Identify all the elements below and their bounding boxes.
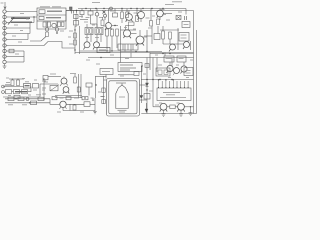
- wire terminal column bus: [4, 13, 6, 61]
- wire J5: [9, 33, 31, 35]
- vertical bb: [49, 99, 51, 105]
- resistor R31: [102, 100, 106, 104]
- label Q5: [161, 9, 165, 11]
- wire bl mid: [3, 86, 24, 88]
- resistor R28: [38, 97, 44, 100]
- wire tm3: [96, 20, 98, 28]
- transistor Q16: [174, 68, 180, 74]
- wire top bus lower: [66, 10, 194, 12]
- wire q rail b: [130, 44, 132, 52]
- resistor R7: [150, 21, 153, 27]
- diode D1: [103, 11, 106, 14]
- label bar bl: [15, 91, 27, 93]
- wire J10: [9, 61, 25, 63]
- coil L1: [39, 10, 45, 14]
- resistor R29: [84, 102, 90, 107]
- vertical drop U2: [105, 75, 107, 79]
- transistor Q7: [94, 42, 100, 48]
- vertical rcr b: [152, 58, 154, 102]
- vertical q15: [94, 98, 96, 111]
- transistor Q11: [184, 42, 190, 48]
- resistor R32: [170, 105, 175, 109]
- label Q9: [143, 36, 147, 38]
- node rail dots: [74, 29, 75, 30]
- wire J6: [9, 39, 29, 41]
- wire q15 right2: [90, 103, 95, 105]
- antenna arrow: [4, 2, 6, 9]
- transistor Q4: [138, 12, 145, 19]
- wire tm2: [112, 25, 118, 27]
- ground G4: [179, 110, 183, 116]
- wire T2 top: [86, 24, 88, 28]
- capacitor C3: [80, 11, 84, 15]
- label crt in2: [119, 111, 125, 113]
- wire drop d: [171, 58, 173, 66]
- transistor Q13: [181, 66, 187, 72]
- terminal J8: [3, 49, 6, 52]
- transistor Q14: [61, 78, 67, 84]
- wire J3: [9, 22, 35, 24]
- node long bus dot: [100, 57, 101, 58]
- label Q3: [134, 12, 138, 14]
- label crt in1: [119, 96, 125, 98]
- transistor Q19: [63, 87, 69, 93]
- diode D2: [92, 99, 94, 102]
- wire riser E: [23, 51, 25, 62]
- transistor Q10: [170, 44, 176, 50]
- resistor R18: [77, 87, 80, 92]
- wire q9 right: [144, 35, 152, 37]
- ground left column: [3, 64, 7, 69]
- wire J7: [9, 45, 45, 47]
- trimmer VC5: [26, 98, 29, 101]
- ground G5: [189, 107, 193, 116]
- terminal J7: [3, 44, 6, 47]
- tuner box outline: [37, 8, 66, 21]
- label W: [101, 96, 105, 98]
- wire bl row: [12, 91, 14, 93]
- wire riser C: [27, 34, 29, 40]
- wire riser D: [29, 28, 31, 34]
- transistor Q6: [84, 42, 90, 48]
- node mid bus dots: [106, 50, 107, 51]
- wire lc 2: [55, 95, 82, 97]
- vertical d4: [140, 66, 142, 96]
- ground G2: [93, 111, 97, 114]
- wire r79: [141, 79, 194, 81]
- capacitor C8: [177, 56, 186, 62]
- capacitor C5: [185, 16, 187, 20]
- wire tuner out: [66, 10, 80, 12]
- label tuner: [47, 10, 62, 12]
- diode D4: [140, 96, 143, 99]
- resistor R25: [8, 97, 14, 100]
- wire drop a: [149, 53, 151, 71]
- filter box U2: [100, 69, 113, 75]
- vertical rail A: [74, 26, 76, 54]
- wire crt stub3: [140, 99, 148, 101]
- capacitor C1: [58, 22, 61, 27]
- terminal J4: [3, 26, 6, 29]
- capacitor C10: [52, 97, 57, 100]
- resistor R3: [48, 22, 51, 27]
- resistor R6: [136, 16, 139, 22]
- label crt top: [116, 82, 126, 84]
- wire bottom bus 1: [5, 98, 50, 100]
- capacitor C4: [129, 22, 135, 26]
- label L2: [46, 17, 61, 19]
- transistor Q8: [123, 30, 130, 37]
- wire lc vert: [88, 87, 90, 96]
- wire link across: [44, 42, 75, 49]
- vertical rail B: [79, 26, 81, 54]
- label top right: [162, 14, 166, 16]
- transistor Q2: [95, 12, 99, 16]
- wire right cluster: [150, 53, 194, 55]
- vertical rail G: [80, 74, 82, 98]
- inductor L3: [88, 11, 93, 15]
- box BR1: [156, 68, 170, 76]
- node bus dots: [85, 8, 86, 9]
- resistor R21: [6, 90, 12, 94]
- wire T3 legs: [96, 35, 98, 43]
- CRT envelope: [116, 85, 128, 109]
- vertical rcr a: [146, 58, 148, 114]
- resistor R8: [157, 19, 160, 25]
- decoupler chain: [75, 14, 77, 27]
- CRT nub: [121, 83, 123, 85]
- wire riser A: [29, 23, 31, 29]
- zener box: [144, 94, 150, 100]
- wire q17 left: [153, 106, 160, 108]
- transistor Q5: [157, 10, 164, 17]
- wire q15 left: [50, 103, 60, 105]
- tuner lower stage box: [37, 21, 66, 29]
- wire top bus upper: [78, 8, 186, 10]
- trimmer VC1: [104, 14, 107, 17]
- vertical center rail: [95, 77, 97, 99]
- capacitor C7: [164, 56, 174, 62]
- label br row: [60, 97, 64, 99]
- wire riser B: [33, 17, 35, 23]
- CRT outer box: [107, 79, 140, 117]
- resistor R36: [74, 21, 79, 26]
- transistor Q20: [106, 23, 112, 29]
- wire right border 2: [196, 30, 198, 114]
- vertical rail D: [151, 26, 153, 44]
- wire drop e: [120, 53, 122, 63]
- wire J1 to tuner: [9, 11, 38, 13]
- coil L2: [39, 16, 44, 19]
- wire link down: [30, 37, 46, 42]
- resistor R16: [169, 32, 172, 39]
- wire bus link: [130, 53, 132, 58]
- capacitor C12: [82, 97, 88, 100]
- resistor R34: [86, 83, 92, 87]
- transistor Q1: [52, 23, 56, 27]
- resistor R35: [73, 105, 76, 110]
- capacitor C13: [113, 13, 118, 17]
- IF transformer T2: [85, 28, 93, 35]
- wire long bus 2: [88, 57, 194, 59]
- label M2 fill: [25, 85, 30, 87]
- node bus right: [110, 7, 113, 10]
- resistor R9: [74, 33, 77, 38]
- terminal J6: [3, 38, 6, 41]
- wire lc 3: [55, 97, 82, 99]
- IF transformer T3: [95, 28, 103, 35]
- wire q rail a: [124, 44, 126, 52]
- relay box K1: [118, 44, 138, 50]
- wire J4: [9, 27, 31, 29]
- wire q8 q9 top: [121, 29, 137, 31]
- label bar VHF: [11, 17, 30, 19]
- label lc: [70, 73, 76, 75]
- wire rm vert a: [177, 28, 179, 50]
- transistor Q3: [126, 14, 133, 21]
- label bb: [8, 104, 13, 106]
- label rcr: [149, 90, 153, 92]
- vertical rail E: [157, 26, 159, 34]
- transistor Q9: [136, 36, 144, 44]
- capacitor C17: [134, 72, 139, 76]
- wire bottom bus 2: [5, 102, 50, 104]
- wire q15 right: [66, 103, 84, 105]
- wire J2: [9, 16, 38, 18]
- box BR2: [184, 68, 193, 76]
- box M2: [24, 84, 31, 89]
- CRT inner box: [109, 81, 137, 114]
- node U1 right: [141, 65, 142, 66]
- label P1: [163, 92, 180, 94]
- wire long bus 1: [75, 52, 194, 54]
- resistor R17: [74, 77, 77, 83]
- wire T2 legs: [86, 35, 88, 43]
- label right cluster: [158, 64, 162, 66]
- resistor R14: [126, 26, 129, 30]
- label scatter: [20, 13, 24, 15]
- resistor R10: [74, 40, 77, 45]
- terminal J2: [3, 15, 6, 18]
- resistor R19: [11, 80, 14, 86]
- trimmer VC3: [55, 28, 59, 32]
- resistor R2: [43, 22, 46, 27]
- wire J9: [9, 56, 25, 58]
- resistor R12: [111, 29, 114, 36]
- wire rm horiz a: [163, 43, 184, 45]
- wire tm1: [90, 19, 92, 24]
- terminal J5: [3, 32, 6, 35]
- resistor R15: [162, 31, 165, 39]
- control box U1: [118, 63, 142, 72]
- label U1 line2: [120, 67, 136, 69]
- wire q15 drop: [69, 104, 71, 110]
- capacitor C15: [76, 11, 78, 14]
- vertical q9 right: [146, 30, 148, 52]
- diode D3: [146, 83, 149, 86]
- vertical bl a: [39, 84, 41, 97]
- wire rm vert b: [190, 41, 192, 50]
- resistor R5: [126, 12, 129, 18]
- resistor R11: [106, 29, 109, 36]
- label top-left: [1, 2, 4, 4]
- tuner box divider: [37, 14, 66, 16]
- capacitor C6: [154, 34, 160, 40]
- node mid dot: [56, 32, 57, 33]
- terminal J11: [2, 85, 5, 88]
- resistor R13: [116, 29, 119, 36]
- wire bl low: [3, 96, 40, 98]
- capacitor C9: [43, 76, 48, 80]
- capacitor C18: [74, 15, 79, 19]
- terminal J3: [3, 21, 6, 24]
- wire crt stub2: [140, 84, 148, 86]
- terminal J12: [2, 91, 5, 94]
- vertical bl rail2: [43, 78, 45, 100]
- wire tuner right edge: [65, 11, 67, 22]
- capacitor C16: [145, 64, 149, 68]
- terminal J1: [3, 10, 6, 13]
- resistor R24: [14, 95, 20, 98]
- wire drop b: [156, 58, 158, 73]
- resistor R23: [22, 90, 28, 94]
- transistor Q17: [160, 103, 167, 110]
- terminal J9: [3, 55, 6, 58]
- comb pin dots: [158, 79, 159, 80]
- label bus 1: [165, 4, 174, 6]
- wire bottom right rail: [141, 113, 196, 115]
- label U1 line3: [120, 69, 130, 71]
- label rail: [69, 30, 73, 32]
- wire rm horiz b: [160, 29, 179, 31]
- transistor Q18: [178, 103, 185, 110]
- label q17: [159, 102, 162, 104]
- resistor R20: [17, 80, 20, 86]
- wire c9: [48, 76, 61, 78]
- wire q17 q18: [167, 106, 170, 108]
- label Q4: [146, 17, 150, 19]
- node bb: [15, 98, 16, 99]
- wire bus corner: [185, 9, 187, 11]
- wire under U1: [118, 74, 134, 76]
- vertical rail F: [78, 74, 80, 98]
- resistor R1: [9, 49, 14, 53]
- wire bl top: [9, 78, 24, 80]
- terminal J10: [3, 60, 6, 63]
- wire Q5 out: [163, 13, 172, 15]
- transistor Q12: [167, 65, 173, 71]
- label specks top mid: [79, 16, 83, 18]
- trimmer VC2: [45, 28, 49, 32]
- wire right border: [193, 11, 195, 114]
- wire mid bus: [80, 50, 121, 52]
- wire lc 1: [40, 83, 58, 85]
- wire crt left rail: [103, 76, 105, 104]
- crystal X1: [176, 16, 181, 20]
- vertical rail C: [120, 26, 122, 53]
- capacitor C14: [71, 11, 73, 14]
- label bl: [6, 82, 10, 84]
- comb connector P1 box: [157, 88, 191, 101]
- node r79 dots: [146, 79, 147, 80]
- arrow down: [146, 103, 148, 111]
- ground G3: [162, 110, 166, 116]
- resistor R26: [18, 97, 24, 100]
- resistor R4: [121, 12, 124, 19]
- wire center: [95, 76, 107, 78]
- IF can T4: [179, 33, 189, 42]
- transistor Q15: [60, 101, 66, 107]
- wire q15 gnd rail: [63, 110, 95, 112]
- resistor R27: [31, 101, 37, 105]
- wire mid bus 2: [121, 51, 163, 53]
- IF can T1: [182, 22, 190, 28]
- ferrite bead FB1: [70, 7, 73, 10]
- capacitor C11: [66, 97, 71, 100]
- label c9: [50, 73, 56, 75]
- resistor R22: [14, 90, 20, 94]
- wire drop c: [164, 53, 166, 57]
- comb pins: [158, 81, 160, 88]
- box dark M1: [97, 48, 110, 53]
- resistor R30: [102, 88, 105, 93]
- vertical bl b: [30, 87, 32, 93]
- pot VR1: [50, 86, 58, 91]
- capacitor C2: [62, 22, 65, 27]
- label R1: [15, 53, 19, 55]
- box M3: [33, 84, 39, 89]
- node d3: [146, 89, 147, 90]
- wire crt stub1: [104, 79, 107, 81]
- label mid: [103, 25, 107, 27]
- label U1 line1: [120, 64, 133, 66]
- tuning arrow: [8, 18, 14, 25]
- wire J8: [9, 50, 25, 52]
- label bl2: [5, 84, 11, 86]
- label bar UHF: [11, 21, 32, 23]
- resistor R33: [101, 20, 104, 26]
